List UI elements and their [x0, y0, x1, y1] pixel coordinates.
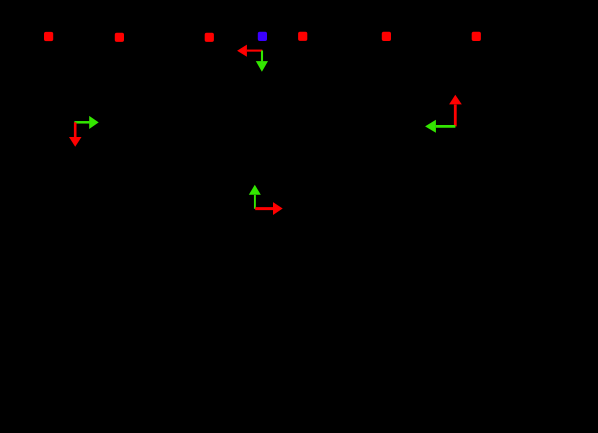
node R3 (red joint marker): [205, 33, 214, 42]
frame C y-axis (green arrow pointing left): [425, 120, 455, 133]
frame B y-axis (green arrow pointing down): [256, 51, 268, 72]
frame A x-axis (green arrow pointing right): [74, 116, 98, 129]
node R4 (red joint marker): [298, 32, 307, 41]
frame C x-axis (red arrow pointing up): [449, 95, 462, 127]
frame A y-axis (red arrow pointing down): [69, 122, 82, 147]
node R1 (red joint marker): [44, 32, 53, 41]
node R5 (red joint marker): [382, 32, 391, 41]
frame D x-axis (red arrow pointing right): [255, 202, 283, 215]
frame D y-axis (green arrow pointing up): [249, 185, 261, 209]
frame B x-axis (red arrow pointing left): [237, 45, 262, 57]
node B1 (blue base marker): [258, 32, 267, 41]
node R6 (red joint marker): [472, 32, 481, 41]
node R2 (red joint marker): [115, 33, 124, 42]
